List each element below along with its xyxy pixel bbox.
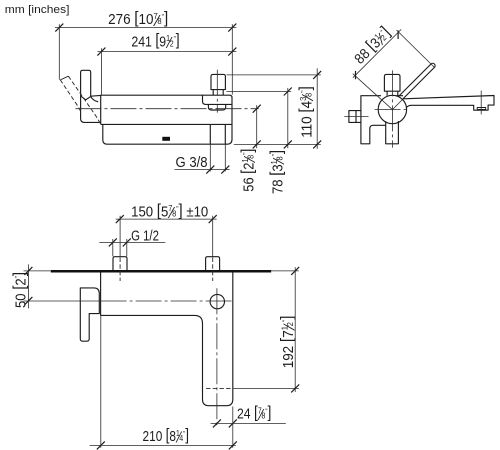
extension line left (210)	[100, 316, 102, 448]
dimension 56	[256, 105, 258, 148]
extension line (78, valve neck)	[227, 91, 292, 93]
svg-text:78 [31⁄8"]: 78 [31⁄8"]	[268, 150, 288, 194]
dimension 210	[90, 444, 236, 446]
outlet centerline	[480, 91, 482, 115]
wall line	[51, 270, 271, 273]
svg-text:mm [inches]: mm [inches]	[5, 4, 70, 17]
dimension 24	[211, 422, 286, 424]
svg-text:241 [91⁄2"]: 241 [91⁄2"]	[131, 31, 179, 52]
valve centerline	[216, 70, 218, 113]
wall plate	[361, 96, 386, 144]
handle-to-body fillet	[81, 96, 99, 102]
svg-text:88 [31⁄2"]: 88 [31⁄2"]	[350, 23, 396, 69]
wall extension (50)	[24, 270, 51, 272]
dimension G1/2	[99, 241, 165, 243]
spout (front view)	[403, 96, 494, 111]
svg-text:210 [81⁄4"]: 210 [81⁄4"]	[143, 426, 189, 447]
dimension 50	[27, 264, 29, 308]
extension lines (150)	[120, 216, 213, 257]
dimension 88	[353, 29, 401, 77]
extension line (110, valve top)	[227, 74, 321, 76]
lever axis inside ball	[392, 99, 402, 109]
dimension 192	[294, 267, 296, 392]
side inlet stub	[349, 111, 361, 123]
connector neck	[387, 91, 398, 95]
end cap (left)	[81, 95, 101, 122]
valve neck	[213, 90, 223, 95]
dimension 241	[98, 51, 237, 53]
svg-text:G 1/2: G 1/2	[131, 227, 159, 244]
wall extension (192)	[271, 270, 299, 272]
handle plan	[80, 288, 99, 341]
88 extension from lever tip	[397, 30, 435, 67]
lever handle (vertical, solid)	[81, 70, 91, 96]
extension line right (276/241)	[231, 24, 233, 94]
ball circle (plan)	[210, 294, 224, 308]
spout aerator	[477, 108, 486, 110]
arm centerline	[216, 288, 218, 426]
aerator extension (192)	[233, 387, 299, 389]
aerator slot	[162, 137, 170, 141]
spout upper body	[101, 95, 232, 124]
supply square left	[113, 257, 127, 270]
88 extension from ball center	[353, 74, 393, 110]
svg-text:276 [107⁄8"]: 276 [107⁄8"]	[108, 10, 168, 30]
supply center dashes	[120, 258, 213, 282]
mounting flange upper	[203, 95, 233, 104]
extension lines (G1/2)	[113, 239, 127, 256]
svg-text:50 [2"]: 50 [2"]	[11, 272, 29, 308]
horizontal centerline	[375, 109, 407, 111]
dimension 78	[287, 88, 289, 148]
top connector	[384, 74, 400, 91]
G3/8 dimension line	[175, 169, 230, 171]
bottom reference extension (right)	[234, 143, 321, 145]
dimension 276	[55, 27, 236, 29]
spout axis centerline	[24, 300, 101, 302]
svg-text:56 [21⁄8"]: 56 [21⁄8"]	[239, 148, 260, 191]
body plan outline	[101, 273, 233, 406]
side view main centerline	[76, 108, 259, 110]
stub step line	[355, 111, 357, 123]
dimension 110	[316, 68, 318, 149]
aerator hidden line	[206, 387, 231, 389]
vertical centerline	[391, 70, 393, 147]
ball joint	[378, 95, 406, 123]
G3/8 pipe lines	[210, 124, 225, 144]
phantom handle tip edge	[60, 76, 68, 80]
svg-text:110 [43⁄8"]: 110 [43⁄8"]	[297, 86, 317, 138]
extension line left (241)	[100, 48, 102, 94]
extension line right (24/210)	[232, 407, 234, 448]
dimension 150	[116, 218, 217, 220]
extension line left (276)	[58, 24, 60, 80]
stub centerline	[344, 116, 368, 118]
body top edge right of neck	[396, 95, 403, 97]
spout lower body	[103, 97, 232, 145]
lever handle phantom (45° position, dashed)	[60, 80, 81, 114]
svg-text:G 3/8: G 3/8	[176, 155, 208, 171]
mounting flange lower	[208, 104, 225, 110]
bottom pipe	[386, 121, 399, 144]
supply square right	[206, 257, 220, 270]
wall supply valve	[211, 74, 225, 89]
svg-text:24 [7⁄8"]: 24 [7⁄8"]	[237, 404, 271, 425]
lever (45°)	[399, 63, 435, 99]
